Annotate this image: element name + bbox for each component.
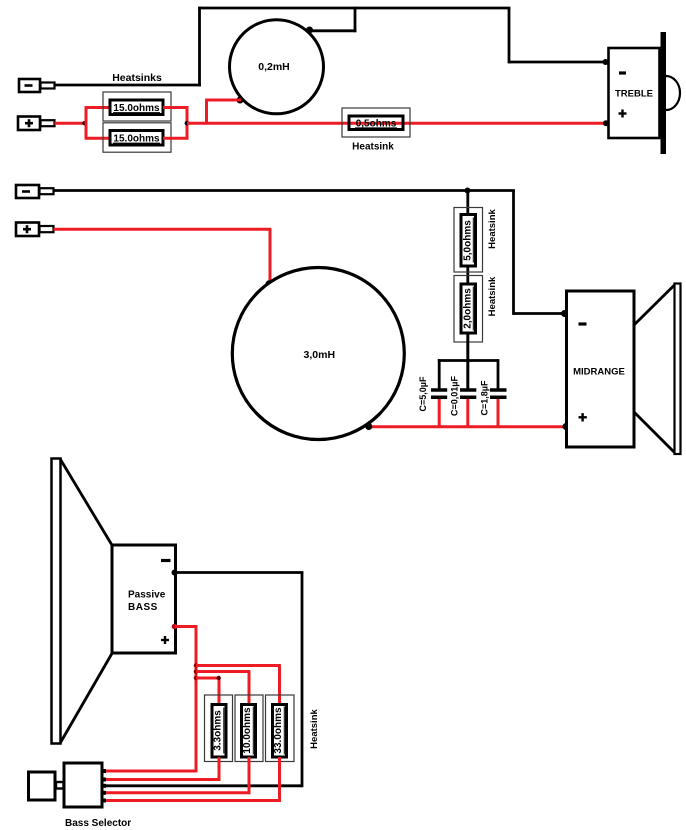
wire black main mid [54,189,515,192]
wire vertical up left [198,7,201,87]
speaker BASS cone bottom diagonal [61,653,113,743]
wire red split vertical [85,108,88,139]
wire red branch to R7 [196,672,250,706]
resistor R4 5,0ohms [461,215,476,267]
heatsink box R6 [205,695,233,762]
wire chain vertical through R4 R5 [466,191,469,391]
svg-text:MIDRANGE: MIDRANGE [573,367,625,378]
terminal IN2+ (midrange positive input) [16,223,54,237]
svg-text:TREBLE: TREBLE [615,89,653,100]
speaker BASS cone back plate [52,459,61,744]
wire red from IN1+ [55,122,87,125]
svg-text:Bass Selector: Bass Selector [65,818,131,829]
terminal IN1- (treble negative input) [19,79,55,92]
junction dot at R4 chain [465,188,471,194]
svg-text:C=5,0µF: C=5,0µF [418,376,428,411]
svg-text:BASS: BASS [128,602,158,613]
heatsink box R2 [103,123,171,152]
junction dot L1 top [306,27,313,34]
wire red branch to R8 [196,666,281,706]
wire capacitor bus [438,359,499,362]
heatsink box R4 [454,208,483,273]
resistor R6 3.3ohms [212,705,226,758]
wire red bus to midrange plus [368,425,567,428]
junction dot treble minus [603,59,609,65]
svg-text:Heatsink: Heatsink [487,276,498,316]
capacitor C2 0,01uF [450,376,477,416]
wire from IN1- to top rail [55,84,202,87]
junction dot R6 top [217,676,221,680]
inductor L1 0,2mH [230,20,324,114]
selector pin 5 [102,799,106,803]
speaker TREBLE [609,32,681,154]
junction dot bass minus [172,570,178,576]
wire red R7 out [104,757,250,794]
svg-text:33.0ohms: 33.0ohms [273,707,284,754]
wire red cap1 down [438,399,441,428]
svg-text:C=0,01µF: C=0,01µF [450,376,460,416]
wire cap3 drop [497,359,500,390]
wire red down to L2 [269,229,272,284]
resistor R7 10.0ohms [242,705,256,758]
junction dot branch2 [194,669,199,674]
resistor R3 0,5ohms [349,116,403,130]
capacitor C3 1,8uF [480,380,507,415]
resistor R5 2,0ohms [461,284,476,333]
wire red L1 bottom tap [205,99,241,102]
svg-text:Heatsink: Heatsink [309,708,320,748]
wire red join vertical [186,106,189,140]
wire to treble minus [509,61,607,64]
wire red R1 out [163,106,188,109]
svg-text:2,0ohms: 2,0ohms [463,288,474,329]
wire red cap2 down [466,399,469,428]
inductor L2 3,0mH [232,268,404,440]
capacitor C1 5,0uF [418,376,447,411]
wire cap1 drop [438,359,441,390]
speaker BASS cone top diagonal [61,460,113,547]
junction dot bass plus [172,624,178,630]
selector body (Bass Selector) [64,763,102,807]
terminal IN2- (midrange negative input) [16,185,54,198]
heatsink box R8 [266,695,295,762]
wire red common to selector pin1 [104,770,196,773]
svg-text:Heatsinks: Heatsinks [112,72,162,84]
junction dot L2 bottom [365,423,372,430]
wire red to R1 [85,106,110,109]
wire red cap3 down [497,399,500,428]
wire bass minus right [175,571,303,574]
junction dot branch3 [194,676,199,681]
selector pin 2 [102,778,106,782]
resistor R2 15.0ohms [110,131,163,146]
speaker MIDRANGE [567,284,681,455]
resistor R8 33.0ohms [273,705,287,758]
selector pin 4 [102,791,106,795]
selector pin 1 [102,769,106,773]
junction dot [82,121,86,125]
wire vertical to midrange minus [512,191,515,315]
svg-text:Heatsink: Heatsink [487,208,498,248]
svg-text:Passive: Passive [128,590,166,601]
junction dot [185,121,189,125]
svg-text:C=1,8µF: C=1,8µF [480,380,490,415]
selector knob [29,772,56,800]
wire from L1 top tap [310,7,356,32]
resistor R1 15.0ohms [110,100,163,115]
junction dot midrange minus [561,310,568,317]
junction dot midrange plus [563,423,570,430]
wire red up to L1 [205,100,208,125]
wire chain below R5 [466,333,469,390]
wire red main to treble plus [187,122,606,125]
wire red bass plus vertical [195,627,198,773]
svg-text:3,0mH: 3,0mH [304,349,336,361]
heatsink box R7 [235,695,263,762]
selector pin 3 [102,784,106,788]
wire bass minus to selector [104,784,302,787]
speaker BASS box [112,545,176,653]
junction dot branch1 [194,663,199,668]
junction dot L1 bottom [237,97,244,104]
selector shaft [56,782,64,789]
wire bass minus vertical [301,573,304,788]
wire red R2 out [163,137,188,140]
wire top rail [198,7,510,10]
heatsink box R3 [342,108,410,137]
junction dot treble plus [603,120,609,126]
svg-text:0,2mH: 0,2mH [258,61,290,73]
wire red branch to R6 [196,678,220,706]
heatsink box R5 [454,276,483,343]
svg-text:10.0ohms: 10.0ohms [242,707,253,754]
terminal IN1+ (treble positive input) [18,117,55,131]
wire vertical down right [508,8,511,63]
wire red to R2 [85,137,110,140]
junction dot L2 top [266,280,273,287]
wire red R6 out [104,757,220,781]
wire red bass plus [175,625,197,628]
wire red R8 out [104,757,281,802]
svg-text:3.3ohms: 3.3ohms [213,710,224,751]
heatsink box R1 [103,92,171,121]
wire red mid input [54,228,272,231]
wire to midrange minus [514,312,568,315]
svg-text:Heatsink: Heatsink [352,142,394,153]
